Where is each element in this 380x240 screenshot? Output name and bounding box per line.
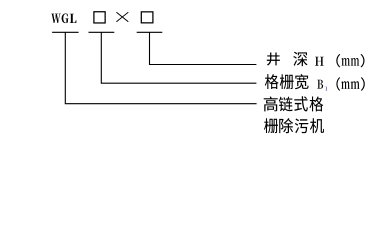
white background xyxy=(0,0,380,148)
label row2 open paren xyxy=(336,77,340,90)
label row2 letter m (2nd) xyxy=(351,81,360,89)
label row3 char 链 xyxy=(279,97,293,112)
label row4 char 机 xyxy=(310,118,324,133)
leader line from box 2 to label "well depth H" xyxy=(150,32,257,64)
multiplication sign x xyxy=(116,12,128,22)
label row2 char 栅 xyxy=(280,74,294,89)
label row3 char 格 xyxy=(310,96,324,111)
label row2 close paren xyxy=(361,77,365,90)
placeholder box 2 xyxy=(141,12,153,23)
leader line from WGL to label "high chain grille machine" xyxy=(65,32,256,103)
label row4 char 污 xyxy=(295,119,309,134)
underline tick below WGL xyxy=(52,31,79,33)
label row1 close paren xyxy=(361,54,365,67)
label row3 char 高 xyxy=(264,96,278,111)
label row1 char 井 xyxy=(267,53,280,66)
label row2 char 宽 xyxy=(295,74,309,89)
text "L" of model code WGL xyxy=(70,14,77,23)
placeholder box 1 xyxy=(94,12,105,23)
label row2 char 格 xyxy=(265,74,279,89)
label row2 letter m (1st) xyxy=(341,81,350,89)
underline tick below box 1 xyxy=(89,31,115,33)
label row4 char 栅 xyxy=(264,118,278,133)
label row1 letter m (1st) xyxy=(341,58,349,66)
text "W" of model code WGL xyxy=(51,14,60,23)
leader line from box 1 to label "grille width B1" xyxy=(101,32,256,83)
label row3 char 式 xyxy=(294,96,307,111)
label row1 char 深 xyxy=(293,52,307,66)
label row2 letter B xyxy=(317,80,323,89)
label row4 char 除 xyxy=(279,118,293,133)
label row1 open paren xyxy=(336,54,340,67)
text "G" of model code WGL xyxy=(62,14,69,24)
underline tick below box 2 xyxy=(137,31,163,33)
label row1 letter H xyxy=(315,57,324,66)
label row1 letter m (2nd) xyxy=(351,58,359,66)
label row2 subscript 1 xyxy=(325,87,327,91)
